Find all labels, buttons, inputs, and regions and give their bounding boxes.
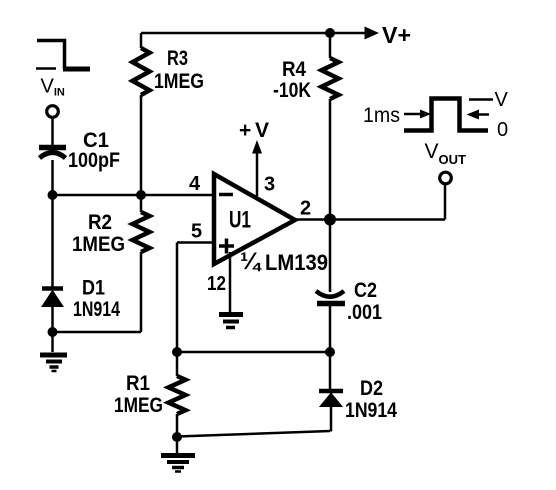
non-inverting input plus sign bbox=[219, 239, 234, 254]
wire R1 column vertical bbox=[176, 243, 179, 353]
svg-text:2: 2 bbox=[300, 198, 311, 220]
svg-text:V: V bbox=[495, 89, 509, 111]
node A junction dot bbox=[48, 190, 58, 200]
svg-text:R1: R1 bbox=[126, 372, 150, 395]
node VIN terminal bbox=[47, 106, 59, 118]
svg-text:LM139: LM139 bbox=[265, 250, 328, 275]
svg-text:4: 4 bbox=[189, 173, 201, 195]
node V+ rail junction dot bbox=[325, 28, 335, 38]
wire D1 bottom to R2 bottom bbox=[52, 331, 141, 334]
svg-text:1MEG: 1MEG bbox=[72, 233, 125, 256]
svg-text:V+: V+ bbox=[382, 22, 411, 48]
arrow to V+ bbox=[365, 27, 380, 40]
node output junction dot bbox=[324, 214, 336, 226]
node D1 bottom junction dot bbox=[48, 327, 58, 337]
wire R1 bottom to D2 bottom bbox=[177, 431, 330, 437]
wire V+ rail bbox=[141, 32, 366, 35]
arrow pointing left at pulse bbox=[478, 113, 489, 116]
ground under R1 bbox=[161, 437, 195, 472]
svg-text:R4: R4 bbox=[282, 58, 306, 81]
input pulse waveform icon bbox=[36, 41, 90, 70]
wire op-amp output pin 2 to VOUT bbox=[295, 218, 445, 221]
svg-text:C2: C2 bbox=[354, 279, 377, 302]
svg-text:100pF: 100pF bbox=[68, 149, 120, 172]
node R1 bottom junction dot bbox=[172, 432, 182, 442]
capacitor C2 bbox=[316, 291, 345, 352]
wire pin 5 to R1 column bbox=[177, 241, 214, 244]
svg-text:U1: U1 bbox=[229, 207, 251, 234]
output pulse waveform icon bbox=[404, 99, 488, 131]
svg-text:1ms: 1ms bbox=[363, 104, 400, 127]
svg-text:12: 12 bbox=[207, 273, 226, 295]
svg-text:+: + bbox=[239, 119, 251, 142]
wire node A row to op-amp pin 4 bbox=[52, 194, 214, 197]
wire output node to C2 bbox=[329, 220, 332, 293]
node B junction dot (R3/R2 tap) bbox=[136, 190, 146, 200]
svg-text:1N914: 1N914 bbox=[345, 399, 397, 422]
inverting input minus sign bbox=[219, 193, 233, 197]
svg-text:1MEG: 1MEG bbox=[114, 394, 163, 417]
svg-text:1N914: 1N914 bbox=[73, 298, 120, 321]
wire VOUT vertical bbox=[444, 184, 447, 220]
svg-text:.001: .001 bbox=[347, 301, 382, 324]
ground under pin 12 bbox=[219, 315, 243, 328]
resistor R4 bbox=[322, 33, 339, 219]
wire R1 top to C2/D2 node bbox=[177, 351, 330, 354]
svg-text:R3: R3 bbox=[167, 47, 188, 70]
svg-text:D1: D1 bbox=[82, 277, 105, 300]
wire node to D2 bbox=[329, 352, 332, 389]
node C2/D2 junction dot bbox=[325, 347, 335, 357]
arrow head +V bbox=[252, 140, 262, 154]
svg-text:5: 5 bbox=[191, 221, 202, 243]
svg-text:3: 3 bbox=[264, 174, 275, 196]
arrow 1ms pointing right bbox=[404, 113, 421, 116]
op-amp U1 comparator triangle bbox=[214, 174, 295, 264]
svg-text:0: 0 bbox=[497, 119, 508, 141]
V level tick bbox=[469, 98, 493, 101]
wire VIN terminal to C1 bbox=[51, 118, 54, 146]
ground under D1 bbox=[40, 332, 67, 371]
svg-text:¼: ¼ bbox=[240, 248, 262, 275]
svg-text:D2: D2 bbox=[360, 377, 383, 400]
node R1 top junction dot bbox=[172, 347, 182, 357]
wire pin 3 to +V arrow bbox=[256, 153, 259, 196]
diode D1 bbox=[42, 289, 63, 333]
resistor R2 bbox=[133, 195, 150, 332]
node VOUT terminal bbox=[440, 172, 452, 184]
diode D2 bbox=[319, 391, 343, 432]
svg-text:1MEG: 1MEG bbox=[154, 70, 204, 93]
svg-text:V: V bbox=[255, 119, 269, 142]
svg-text:R2: R2 bbox=[88, 211, 112, 234]
svg-text:-10K: -10K bbox=[273, 79, 311, 102]
wire C1 to node A bbox=[51, 160, 54, 195]
wire pin 12 to ground bbox=[229, 252, 232, 312]
resistor R3 bbox=[133, 33, 150, 195]
wire node A to D1 bbox=[51, 195, 54, 287]
resistor R1 bbox=[169, 352, 186, 437]
capacitor C1 bbox=[39, 148, 66, 159]
